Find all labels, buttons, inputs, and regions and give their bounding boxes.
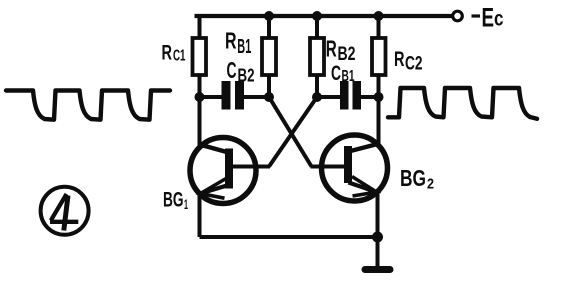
- wire BG1 base lead: [233, 165, 270, 169]
- wire CB2 right plate to RB1 node: [244, 95, 269, 99]
- wire RC1 lower lead: [198, 75, 202, 97]
- resistor RB2: [310, 38, 324, 75]
- label CB1: [331, 62, 355, 85]
- svg-text:BG: BG: [400, 165, 426, 191]
- svg-text:C: C: [227, 57, 237, 83]
- capacitor CB2: [222, 81, 245, 110]
- svg-text:B1: B1: [237, 36, 251, 58]
- figure number 4 (circled): [41, 187, 89, 235]
- ground: [365, 239, 390, 270]
- svg-text:BG: BG: [163, 189, 184, 212]
- svg-text:R: R: [394, 48, 405, 71]
- wire RB2 upper lead: [315, 16, 319, 38]
- svg-text:R: R: [162, 42, 173, 65]
- wire RB1 upper lead: [267, 16, 271, 38]
- waveform at BG2 collector (right): [388, 88, 537, 119]
- label CB2: [227, 57, 255, 86]
- node RC2 top: [374, 11, 384, 21]
- wire RB2 node to CB1 left plate: [317, 95, 340, 99]
- wire BG2 collector lead: [377, 97, 381, 146]
- wire cross-coupling RB2 to BG1 base: [269, 97, 317, 167]
- node emitter-ground junction: [372, 232, 383, 243]
- label RC1: [162, 42, 186, 65]
- wire RC2 upper lead: [377, 16, 381, 38]
- wire CB1 right plate to RC2 node: [361, 95, 379, 99]
- svg-text:B1: B1: [342, 68, 355, 85]
- svg-text:B2: B2: [238, 66, 255, 86]
- wire bottom rail: [200, 235, 378, 239]
- svg-text:E: E: [482, 3, 495, 33]
- wire cross-coupling RB1 to BG2 base: [269, 97, 312, 167]
- label RC2: [394, 48, 423, 75]
- node RB2 top: [312, 11, 322, 21]
- resistor RC1: [193, 38, 207, 75]
- wire RC2 lower lead: [377, 75, 381, 97]
- svg-text:1: 1: [184, 196, 188, 212]
- wire node to CB2 left plate: [200, 95, 222, 99]
- wire BG1 emitter lead: [198, 194, 202, 237]
- label -Ec: [472, 3, 504, 33]
- node RC1-CB2: [195, 92, 205, 102]
- waveform at BG1 collector (left): [6, 91, 170, 120]
- wire BG2 emitter lead: [376, 193, 380, 238]
- svg-text:C1: C1: [173, 48, 186, 65]
- label RB2: [326, 36, 356, 66]
- wire BG2 base lead: [311, 165, 345, 169]
- wire top supply rail: [195, 14, 453, 18]
- node RB1 top: [264, 11, 274, 21]
- svg-text:R: R: [326, 36, 337, 62]
- svg-text:C: C: [331, 62, 341, 85]
- transistor BG1: [190, 138, 256, 204]
- wire RB1 lower lead: [267, 75, 271, 97]
- transistor BG2: [322, 135, 388, 201]
- svg-text:2: 2: [427, 176, 434, 193]
- label RB1: [225, 28, 251, 59]
- svg-text:c: c: [494, 8, 504, 31]
- wire RC1 upper lead: [198, 14, 202, 38]
- capacitor CB1: [340, 81, 361, 110]
- label BG1: [163, 189, 188, 213]
- terminal -Ec: [453, 11, 463, 21]
- label BG2: [400, 165, 434, 193]
- resistor RC2: [372, 38, 386, 75]
- node RB2 bottom: [312, 92, 322, 102]
- wire RB2 lower lead: [315, 75, 319, 97]
- svg-text:C2: C2: [405, 54, 423, 75]
- node RC2-CB1: [374, 92, 384, 102]
- wire BG1 collector lead: [198, 97, 202, 146]
- node RB1 bottom: [264, 92, 274, 102]
- resistor RB1: [262, 38, 276, 75]
- svg-text:R: R: [225, 28, 237, 54]
